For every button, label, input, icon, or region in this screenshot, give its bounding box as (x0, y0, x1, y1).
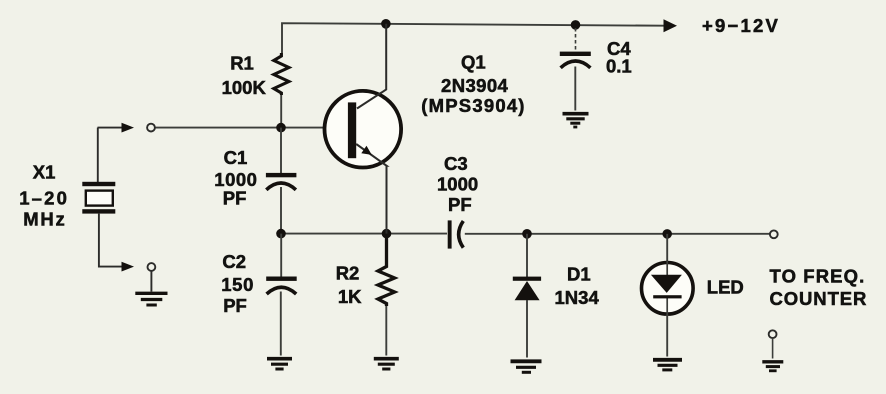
ground (C2) (267, 359, 292, 369)
diode D1 (513, 277, 541, 301)
wire C2 to ground (280, 292, 282, 356)
input terminal open circle (147, 124, 155, 132)
input arrow wire (98, 127, 123, 129)
wire terminal to ground (150, 271, 152, 292)
svg-text:1K: 1K (338, 286, 362, 307)
capacitor C2 (266, 277, 297, 295)
wire crystal top lead (97, 128, 99, 183)
crystal X1 bottom plate (82, 209, 115, 213)
node: base junction dot (276, 123, 286, 133)
capacitor C1 (266, 173, 297, 190)
wire C1 to bus (280, 187, 282, 234)
ground (R2) (374, 359, 399, 369)
node: rail/collector junction (381, 19, 391, 29)
crystal X1 body (86, 191, 113, 206)
transistor Q1 (325, 24, 402, 234)
svg-text:(MPS3904): (MPS3904) (421, 95, 525, 116)
emitter bus wire (left of C3) (281, 233, 447, 235)
svg-text:TO FREQ.: TO FREQ. (770, 266, 866, 287)
svg-text:LED: LED (707, 277, 744, 298)
resistor R2 (378, 234, 395, 306)
svg-text:+9−12V: +9−12V (702, 15, 780, 36)
svg-text:D1: D1 (567, 264, 591, 285)
wire bus to D1 (526, 234, 528, 277)
capacitor C3 (448, 220, 464, 248)
wire C4 to ground (574, 67, 576, 111)
wire input to base (156, 127, 350, 129)
svg-text:0.1: 0.1 (606, 56, 632, 77)
wire R2 to ground (385, 306, 387, 356)
svg-text:R2: R2 (336, 263, 360, 284)
svg-text:2N3904: 2N3904 (441, 75, 509, 96)
svg-text:150: 150 (221, 274, 254, 295)
svg-text:C2: C2 (222, 251, 246, 272)
svg-text:PF: PF (223, 295, 247, 316)
svg-text:1–20: 1–20 (19, 187, 69, 208)
wire bus to C2 (280, 234, 282, 277)
node: D1 junction (522, 229, 532, 239)
node: LED junction (662, 229, 672, 239)
base bar (348, 102, 356, 158)
wire D1 to ground (526, 300, 528, 358)
emitter arrowhead (361, 146, 372, 155)
node: C1/C2 bus junction (276, 229, 286, 239)
wire terminal to ground (772, 338, 774, 358)
wire bus to LED (666, 234, 668, 263)
svg-text:C3: C3 (444, 153, 468, 174)
capacitor C4 lead (dashed stub) (575, 28, 577, 52)
svg-text:1000: 1000 (437, 174, 478, 195)
lower-left terminal open circle (148, 263, 156, 271)
wire LED to ground (666, 315, 668, 357)
svg-text:1000: 1000 (214, 169, 257, 190)
wire base node to C1 (280, 128, 282, 173)
ground (C4) (563, 114, 589, 127)
freq counter ground terminal open circle (769, 330, 777, 338)
ground (D1) (511, 361, 542, 372)
svg-text:Q1: Q1 (461, 52, 486, 73)
ground (freq counter) (762, 362, 783, 371)
output terminal open circle (770, 230, 778, 238)
svg-text:X1: X1 (33, 162, 56, 183)
collector lead (357, 24, 386, 109)
svg-text:C1: C1 (224, 147, 248, 168)
LED (642, 261, 694, 315)
emitter lead (356, 144, 386, 234)
wire crystal bottom lead (99, 214, 122, 267)
svg-text:R1: R1 (230, 52, 254, 73)
ground (input) (135, 293, 167, 305)
capacitor C4 (560, 52, 591, 68)
ground (LED) (653, 360, 682, 370)
node: rail/C4 junction (571, 20, 581, 30)
svg-text:PF: PF (448, 194, 472, 215)
supply arrowhead (664, 19, 678, 32)
node: R2 bus junction (382, 229, 392, 239)
svg-text:PF: PF (223, 188, 247, 209)
crystal X1 top plate (82, 182, 115, 186)
svg-text:1N34: 1N34 (555, 287, 600, 308)
svg-text:MHz: MHz (23, 209, 66, 230)
svg-text:COUNTER: COUNTER (770, 288, 868, 309)
wire R1 bottom (280, 95, 282, 128)
resistor R1 (274, 53, 289, 95)
input arrowhead (122, 123, 135, 133)
svg-text:100K: 100K (222, 77, 267, 98)
lower-left arrowhead (122, 262, 135, 272)
emitter bus wire (right of C3) (465, 233, 770, 235)
top supply rail wire (282, 23, 664, 53)
